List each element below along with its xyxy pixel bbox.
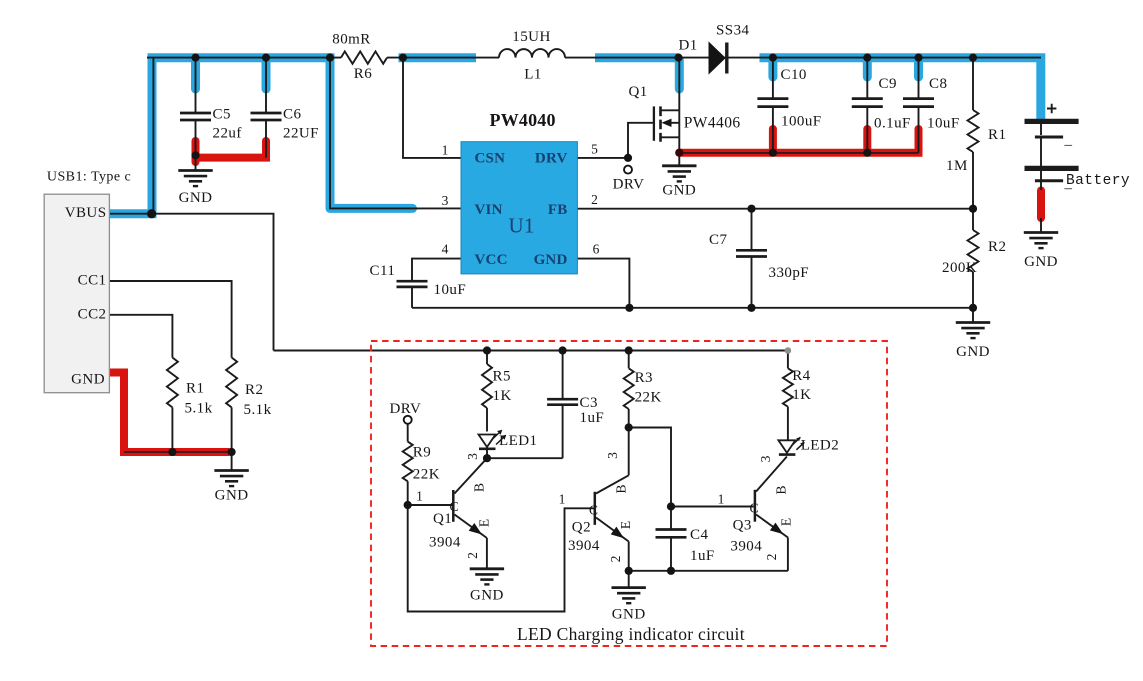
wire R2 bottom to ground xyxy=(972,308,974,322)
wire C11 bottom xyxy=(411,287,413,308)
svg-text:DRV: DRV xyxy=(390,401,422,417)
svg-text:3: 3 xyxy=(465,453,480,460)
transistor Q3 3904 xyxy=(755,457,788,538)
svg-text:Q1: Q1 xyxy=(629,84,648,100)
node DRV junction xyxy=(624,154,632,162)
node C7 bottom junction xyxy=(747,304,755,312)
wire CSN branch xyxy=(403,58,461,158)
svg-text:R9: R9 xyxy=(413,445,431,461)
node Q1 base junction xyxy=(404,501,412,509)
resistor R6 80mR xyxy=(341,51,387,63)
svg-text:B: B xyxy=(614,484,629,493)
svg-text:C8: C8 xyxy=(929,76,947,92)
wire C8 top stub highlight xyxy=(914,60,923,77)
svg-text:2: 2 xyxy=(764,554,779,561)
wire USB GND net red xyxy=(109,373,235,457)
wire C8 leads xyxy=(918,58,920,153)
svg-text:2: 2 xyxy=(608,556,623,563)
ground at battery xyxy=(1024,233,1058,249)
node VBUS junction xyxy=(147,209,156,218)
svg-text:2: 2 xyxy=(465,552,480,559)
svg-text:CC1: CC1 xyxy=(78,273,107,289)
LED LED2 xyxy=(778,437,804,454)
svg-text:200K: 200K xyxy=(942,260,977,276)
node C5 ground junction xyxy=(191,151,199,159)
node Q2 emitter ground junction xyxy=(625,567,633,575)
svg-text:VBUS: VBUS xyxy=(65,205,107,221)
node R3 bottom junction xyxy=(625,423,633,431)
wire C5-C6 ground link red xyxy=(193,137,270,158)
svg-text:22UF: 22UF xyxy=(283,126,319,142)
svg-text:3: 3 xyxy=(442,193,449,208)
ground at Q2 emitter xyxy=(612,588,646,604)
svg-text:0.1uF: 0.1uF xyxy=(874,116,911,132)
USB1 Type-C connector box xyxy=(44,194,109,393)
wire VCC pin4 to C11 xyxy=(412,259,461,281)
svg-text:GND: GND xyxy=(71,372,105,388)
node R2 usb ground junction xyxy=(228,448,236,456)
ground at Q1 emitter xyxy=(470,569,504,585)
svg-text:3904: 3904 xyxy=(730,539,762,555)
capacitor C3 xyxy=(547,351,578,459)
inductor L1 xyxy=(499,49,565,57)
svg-text:Q1: Q1 xyxy=(433,511,452,527)
capacitor C4 xyxy=(656,507,687,571)
wire CC2 to R1 xyxy=(109,315,172,358)
wire ground rail inner line xyxy=(679,152,918,154)
capacitor C8 xyxy=(903,99,934,107)
svg-text:CSN: CSN xyxy=(475,151,506,167)
svg-text:C5: C5 xyxy=(213,107,231,123)
node R4 corner xyxy=(785,347,792,354)
wire Q1 base loop to Q2 base xyxy=(408,505,594,612)
svg-text:L1: L1 xyxy=(524,67,542,83)
wire LED1 cathode to C3 bottom xyxy=(487,457,563,459)
svg-text:FB: FB xyxy=(548,202,568,218)
svg-text:3: 3 xyxy=(605,452,620,459)
svg-text:USB1: Type c: USB1: Type c xyxy=(47,170,131,185)
wire bottom ground rail xyxy=(412,307,973,309)
wire Q1 drain highlight xyxy=(675,60,684,89)
capacitor C6 xyxy=(251,113,282,120)
node R3 top junction xyxy=(625,346,633,354)
capacitor C7 xyxy=(736,250,767,256)
LED charging indicator dashed box xyxy=(371,341,887,646)
svg-text:GND: GND xyxy=(179,190,213,206)
node R1 R2 FB junction xyxy=(969,205,977,213)
svg-text:VIN: VIN xyxy=(475,202,503,218)
wire top rail highlight after L1 xyxy=(595,53,679,62)
svg-text:CC2: CC2 xyxy=(78,307,107,323)
svg-text:C6: C6 xyxy=(283,107,301,123)
wire LED circuit supply rail xyxy=(274,350,788,352)
wire FB net xyxy=(577,208,973,210)
svg-text:4: 4 xyxy=(442,242,449,257)
node DRV led circuit xyxy=(404,416,412,424)
svg-text:GND: GND xyxy=(662,183,696,199)
svg-text:PW4040: PW4040 xyxy=(490,110,556,130)
node Q1 drain junction xyxy=(674,54,682,62)
wire VBUS from USB to junction and on to LED circuit xyxy=(109,214,273,351)
svg-text:R2: R2 xyxy=(245,382,263,398)
svg-text:C4: C4 xyxy=(690,527,708,543)
svg-text:C10: C10 xyxy=(781,67,807,83)
svg-text:330pF: 330pF xyxy=(769,265,810,281)
svg-text:R6: R6 xyxy=(354,66,372,82)
node C10 ground junction xyxy=(769,149,777,157)
svg-text:R4: R4 xyxy=(792,368,810,384)
svg-text:C11: C11 xyxy=(370,263,396,279)
svg-text:1K: 1K xyxy=(792,387,811,403)
diode D1 SS34 xyxy=(709,43,727,74)
wire top rail highlight after R6 xyxy=(399,53,477,62)
svg-text:1: 1 xyxy=(416,489,423,504)
ground at Q1 source xyxy=(662,153,696,182)
node VIN branch junction xyxy=(326,54,334,62)
svg-text:SS34: SS34 xyxy=(716,23,750,39)
svg-text:U1: U1 xyxy=(509,214,535,238)
wire Q2 ground stub xyxy=(628,571,630,588)
node C7 FB junction xyxy=(747,205,755,213)
svg-text:5.1k: 5.1k xyxy=(244,402,272,418)
svg-text:C9: C9 xyxy=(879,76,897,92)
wire C6 leads xyxy=(265,58,267,158)
resistor R1 5.1k xyxy=(167,358,178,408)
svg-text:_: _ xyxy=(1064,132,1073,148)
wire top rail highlight after D1 to battery xyxy=(760,53,1041,120)
wire C7 leads xyxy=(751,209,753,308)
svg-text:GND: GND xyxy=(470,588,504,604)
LED LED1 xyxy=(479,430,507,458)
svg-text:GND: GND xyxy=(215,488,249,504)
wire main ground rail red (Q1 source to C8) xyxy=(675,125,922,157)
svg-text:R1: R1 xyxy=(988,127,1006,143)
capacitor C10 xyxy=(757,99,788,107)
svg-text:5: 5 xyxy=(591,142,598,157)
wire C6 top stub highlight xyxy=(262,60,271,89)
svg-text:DRV: DRV xyxy=(613,177,645,193)
svg-text:1K: 1K xyxy=(493,388,512,404)
resistor R9 22K xyxy=(403,424,413,505)
svg-text:10uF: 10uF xyxy=(927,116,960,132)
resistor R3 22K xyxy=(624,351,634,428)
svg-text:GND: GND xyxy=(956,344,990,360)
wire C10 ground stub red xyxy=(769,129,777,150)
wire R2 bottom xyxy=(231,407,233,470)
svg-text:1uF: 1uF xyxy=(580,410,605,426)
node DRV pin5 xyxy=(624,166,632,174)
wire Q2 emitter down xyxy=(628,542,630,571)
wire Q3 emitter down xyxy=(787,538,789,571)
label battery plus xyxy=(1047,104,1056,113)
node C3 top junction xyxy=(559,346,567,354)
svg-text:Q3: Q3 xyxy=(733,518,752,534)
wire C9 top stub highlight xyxy=(863,60,872,77)
svg-text:B: B xyxy=(472,483,487,492)
svg-text:15UH: 15UH xyxy=(512,29,550,45)
svg-text:22uf: 22uf xyxy=(213,126,242,142)
svg-text:DRV: DRV xyxy=(535,151,568,167)
node C9 top junction xyxy=(863,54,871,62)
svg-text:1M: 1M xyxy=(946,158,968,174)
svg-text:22K: 22K xyxy=(635,390,662,406)
svg-text:1uF: 1uF xyxy=(690,548,715,564)
wire C10 leads xyxy=(772,58,774,153)
ground at C5 xyxy=(178,171,212,187)
svg-text:6: 6 xyxy=(593,242,600,257)
wire battery stack links xyxy=(1040,124,1042,233)
node C8 top junction xyxy=(914,54,922,62)
transistor Q2 3904 xyxy=(595,475,629,541)
node R1 top junction xyxy=(969,54,977,62)
wire left vertical to VBUS xyxy=(152,58,154,214)
wire VIN branch xyxy=(330,58,461,209)
transistor Q1 3904 xyxy=(453,458,487,538)
svg-text:PW4406: PW4406 xyxy=(684,115,741,132)
node Q1 source junction xyxy=(675,149,683,157)
svg-text:LED1: LED1 xyxy=(499,433,537,449)
ground at USB resistors xyxy=(214,471,248,487)
wire C9 leads xyxy=(866,58,868,153)
node U1 GND rail junction xyxy=(625,304,633,312)
wire VIN branch highlight xyxy=(330,53,413,208)
wire C9 ground stub red xyxy=(863,129,871,150)
wire CC1 to R2 xyxy=(109,281,231,358)
svg-text:LED Charging indicator circuit: LED Charging indicator circuit xyxy=(517,624,745,644)
svg-text:2: 2 xyxy=(591,192,598,207)
svg-text:R1: R1 xyxy=(186,381,204,397)
svg-text:3904: 3904 xyxy=(568,538,600,554)
svg-text:Q2: Q2 xyxy=(572,520,591,536)
capacitor C11 xyxy=(397,281,428,287)
wire USB ground inner line xyxy=(124,451,232,453)
node LED1 cathode junction xyxy=(483,454,491,462)
svg-text:E: E xyxy=(618,521,633,529)
svg-text:GND: GND xyxy=(534,252,568,268)
wire C5 ground stub red xyxy=(192,141,200,162)
svg-text:1: 1 xyxy=(559,492,566,507)
resistor R4 1K xyxy=(783,351,793,441)
node C5 top junction xyxy=(191,54,199,62)
wire C5 leads xyxy=(195,58,197,170)
svg-text:100uF: 100uF xyxy=(781,114,822,130)
battery xyxy=(1025,121,1079,180)
svg-text:R5: R5 xyxy=(493,369,511,385)
resistor R2 200K xyxy=(968,230,979,272)
wire VBUS power net highlight (left vertical + top rail left segment) xyxy=(109,58,332,219)
resistor R1 1M xyxy=(968,110,979,152)
svg-text:3904: 3904 xyxy=(429,535,461,551)
wire Q1 base xyxy=(408,504,454,506)
resistor R5 1K xyxy=(482,351,492,432)
svg-text:10uF: 10uF xyxy=(434,282,467,298)
node C9 ground junction xyxy=(863,149,871,157)
ground at R2 bottom xyxy=(956,323,990,339)
svg-text:R3: R3 xyxy=(635,370,653,386)
svg-text:1: 1 xyxy=(718,492,725,507)
svg-text:1: 1 xyxy=(442,143,449,158)
wire battery negative to ground red xyxy=(1037,191,1045,219)
svg-text:C7: C7 xyxy=(709,232,727,248)
wire R2 200K leads xyxy=(972,209,974,308)
node R1 usb ground junction xyxy=(168,448,176,456)
wire bottom rail led circuit xyxy=(629,570,788,572)
wire Q2 collector vertical xyxy=(628,428,630,476)
wire GND pin6 down xyxy=(577,259,629,308)
svg-text:GND: GND xyxy=(1024,254,1058,270)
svg-text:5.1k: 5.1k xyxy=(185,401,213,417)
svg-text:GND: GND xyxy=(612,607,646,623)
svg-text:E: E xyxy=(477,519,492,527)
svg-text:LED2: LED2 xyxy=(801,438,839,454)
svg-text:C: C xyxy=(589,503,598,518)
capacitor C9 xyxy=(852,99,883,107)
svg-text:Battery: Battery xyxy=(1066,173,1130,189)
node CSN branch junction xyxy=(399,54,407,62)
op-amp U1 PW4040 converter IC xyxy=(461,142,577,274)
capacitor C5 xyxy=(180,113,211,120)
svg-text:80mR: 80mR xyxy=(332,32,370,48)
svg-text:22K: 22K xyxy=(413,467,440,483)
wire DRV pin5 to gate node xyxy=(577,123,653,158)
node R2 bottom junction xyxy=(969,304,977,312)
wire Q1 emitter down xyxy=(486,538,488,569)
resistor R2 5.1k xyxy=(226,358,237,408)
wire C10 top stub highlight xyxy=(768,60,777,77)
svg-text:B: B xyxy=(774,485,789,494)
wire R1 1M leads xyxy=(972,58,974,209)
node C4 bottom junction xyxy=(667,567,675,575)
svg-text:R2: R2 xyxy=(988,239,1006,255)
svg-text:C3: C3 xyxy=(580,395,598,411)
svg-text:D1: D1 xyxy=(679,38,698,54)
node C4 top junction xyxy=(667,502,675,510)
svg-text:C: C xyxy=(750,501,759,516)
wire C5 top stub highlight xyxy=(191,60,200,89)
node C10 top junction xyxy=(769,54,777,62)
wire top power rail xyxy=(147,57,1041,59)
svg-text:VCC: VCC xyxy=(475,252,508,268)
node R5 top junction xyxy=(483,346,491,354)
node C6 top junction xyxy=(262,54,270,62)
transistor Q1 PW4406 MOSFET xyxy=(654,58,679,153)
wire R1 bottom xyxy=(171,407,173,452)
svg-text:E: E xyxy=(779,518,794,526)
wire R3 bottom to C4 top xyxy=(629,428,671,507)
svg-text:3: 3 xyxy=(758,455,773,462)
wire Q3 base xyxy=(671,506,754,508)
